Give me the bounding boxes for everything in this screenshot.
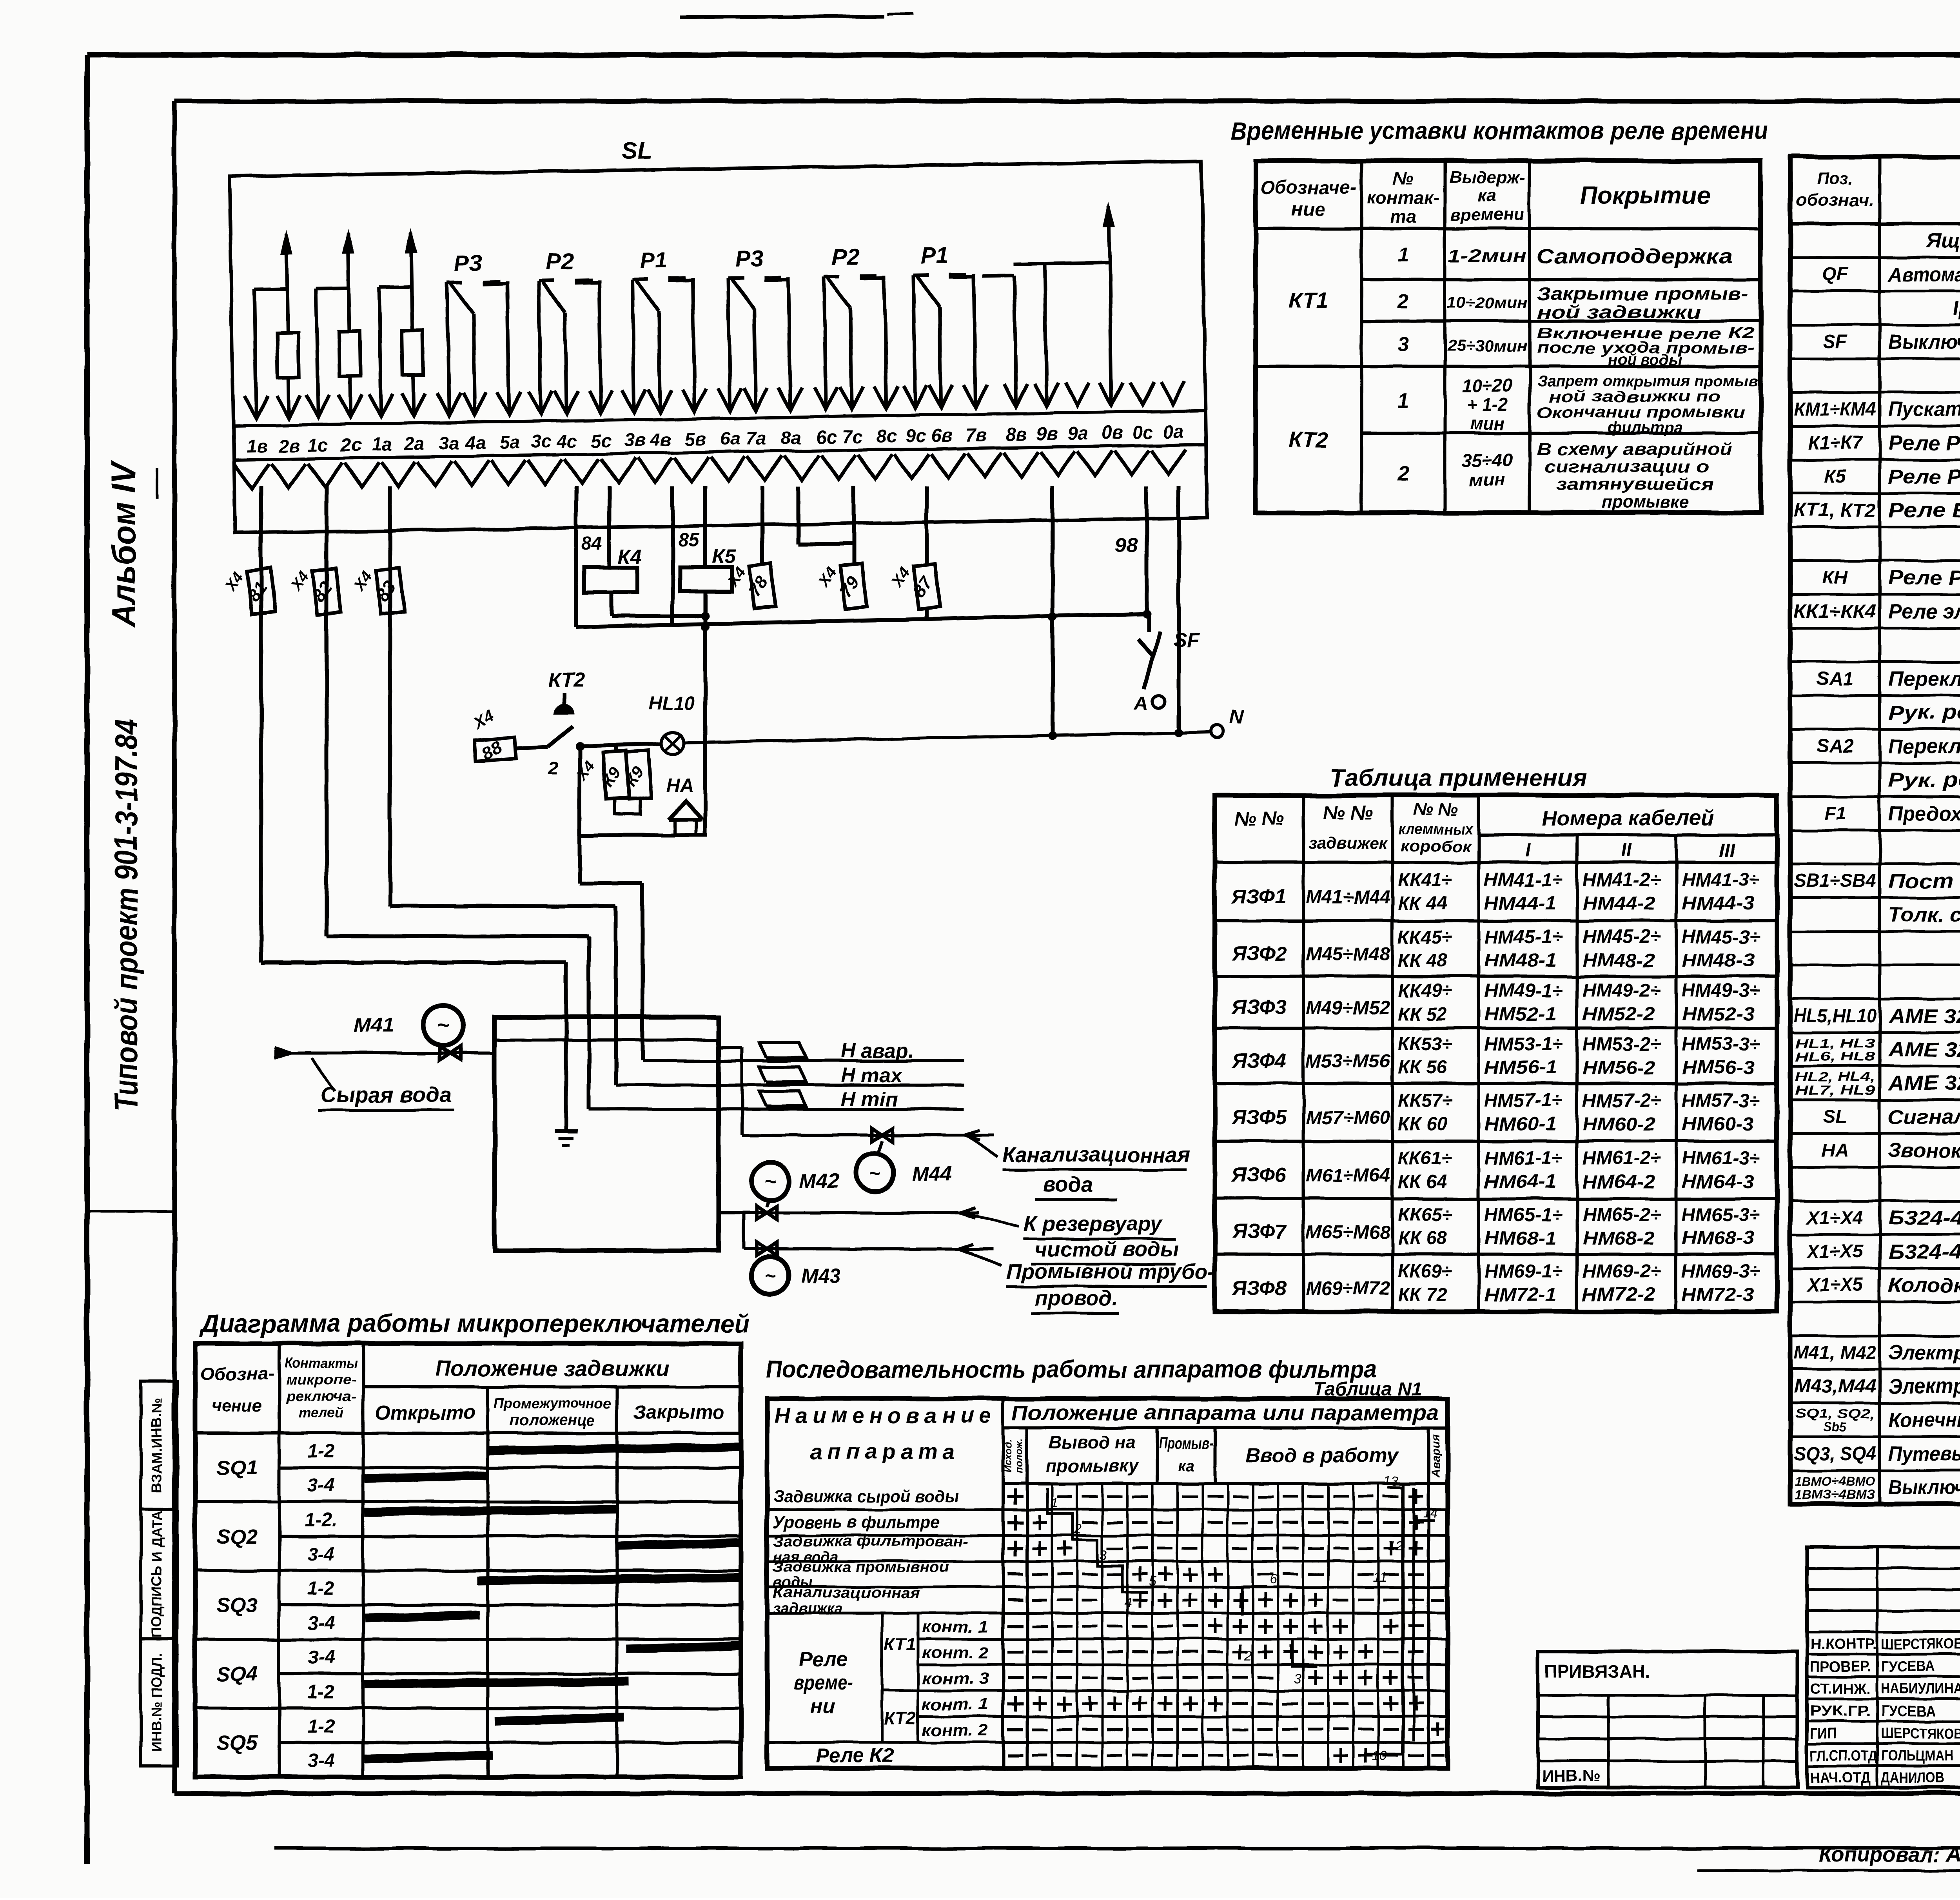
svg-text:ИНВ.№: ИНВ.№ [1542,1767,1600,1785]
svg-text:Р3: Р3 [454,250,482,276]
svg-text:КК 52: КК 52 [1398,1004,1447,1025]
svg-text:сигнализации о: сигнализации о [1544,457,1709,476]
svg-text:3в: 3в [624,430,646,451]
svg-text:КК53÷: КК53÷ [1398,1034,1452,1055]
svg-text:НМ49-2÷: НМ49-2÷ [1583,980,1661,1001]
svg-text:3а: 3а [439,432,460,454]
svg-text:Реле К2: Реле К2 [815,1744,894,1767]
svg-text:5с: 5с [591,430,612,451]
svg-text:КТ1: КТ1 [1289,288,1328,312]
svg-text:Автоматический выключатель АЕ.: Автоматический выключатель АЕ.2023-100УЗ [1887,263,1960,286]
svg-text:НМ45-2÷: НМ45-2÷ [1583,927,1661,947]
svg-text:~: ~ [869,1162,880,1184]
svg-text:1-2: 1-2 [307,1579,335,1599]
svg-text:2с: 2с [340,434,361,455]
svg-text:чистой воды: чистой воды [1035,1238,1179,1261]
svg-text:Р3: Р3 [735,246,763,272]
svg-text:0в: 0в [1102,422,1123,443]
svg-text:КК 48: КК 48 [1398,950,1447,971]
svg-text:Покрытие: Покрытие [1580,182,1710,209]
svg-text:3-4: 3-4 [307,1544,334,1565]
svg-text:Обозна-: Обозна- [200,1365,274,1384]
svg-text:НА: НА [1821,1140,1848,1161]
svg-text:8в: 8в [1006,423,1027,445]
svg-text:2: 2 [1074,1522,1082,1537]
svg-text:SQ4: SQ4 [217,1663,258,1686]
svg-text:6: 6 [1270,1572,1277,1587]
svg-text:Реле: Реле [799,1648,848,1671]
svg-text:микропе-: микропе- [286,1372,356,1388]
svg-text:+ 1-2: + 1-2 [1466,394,1508,415]
svg-text:7в: 7в [965,424,987,445]
svg-text:1ВМЗ÷4ВМЗ: 1ВМЗ÷4ВМЗ [1795,1487,1875,1502]
svg-text:НМ53-2÷: НМ53-2÷ [1583,1034,1661,1055]
svg-text:Электродвигатель ВАОА-071-4 0,: Электродвигатель ВАОА-071-4 0,4кВт,-380В [1888,1375,1960,1398]
svg-text:Уровень в фильтре: Уровень в фильтре [773,1513,940,1532]
svg-text:КТ1, КТ2: КТ1, КТ2 [1794,500,1876,521]
svg-text:I: I [1525,840,1531,861]
svg-text:чение: чение [212,1396,262,1415]
svg-text:SQ1: SQ1 [217,1457,258,1479]
svg-text:ПРОВЕР.: ПРОВЕР. [1810,1659,1871,1675]
svg-text:конт. 2: конт. 2 [922,1721,989,1739]
svg-text:НМ72-3: НМ72-3 [1682,1285,1754,1305]
svg-text:задвижек: задвижек [1309,834,1388,852]
svg-text:3с: 3с [531,431,552,452]
svg-text:ка: ка [1478,186,1496,205]
svg-text:М53÷М56: М53÷М56 [1306,1051,1390,1072]
svg-text:1-2.: 1-2. [305,1510,338,1530]
svg-text:ЯЗФ8: ЯЗФ8 [1231,1277,1287,1299]
svg-text:ной воды: ной воды [1608,351,1682,368]
svg-text:КТ2: КТ2 [1289,427,1328,452]
svg-text:X1÷X5: X1÷X5 [1806,1241,1864,1262]
svg-text:HL5,HL10: HL5,HL10 [1794,1005,1876,1026]
svg-text:та: та [1390,206,1416,227]
svg-text:1: 1 [1397,390,1409,412]
svg-text:Переключатель ПКУЗ-12U-УЗ Схем: Переключатель ПКУЗ-12U-УЗ Схема 0103 [1888,735,1960,758]
svg-text:Запрет открытия промыв: Запрет открытия промыв [1537,373,1758,390]
svg-text:9в: 9в [1036,423,1058,444]
svg-text:промывке: промывке [1601,493,1689,512]
svg-text:HL7, HL9: HL7, HL9 [1795,1083,1876,1098]
svg-text:ИНВ.№ ПОДЛ.: ИНВ.№ ПОДЛ. [149,1653,165,1751]
svg-text:Реле РПЛ 1400*4 U~220В, ТУ 16: Реле РПЛ 1400*4 U~220В, ТУ 16-523.554-78 [1888,432,1960,455]
svg-text:НМ56-3: НМ56-3 [1682,1058,1754,1078]
svg-text:мин: мин [1470,470,1505,490]
svg-text:СТ.ИНЖ.: СТ.ИНЖ. [1810,1681,1871,1697]
svg-text:ГОЛЬЦМАН: ГОЛЬЦМАН [1881,1748,1953,1764]
svg-text:ШЕРСТЯКОВА: ШЕРСТЯКОВА [1881,1726,1960,1742]
svg-text:К4: К4 [618,546,642,568]
svg-text:ШЕРСТЯКОВА: ШЕРСТЯКОВА [1881,1636,1960,1653]
svg-text:М69÷М72: М69÷М72 [1306,1278,1390,1299]
svg-text:НМ49-1÷: НМ49-1÷ [1484,980,1563,1001]
svg-text:3-4: 3-4 [307,1475,334,1496]
svg-text:№ №: № № [1413,800,1457,819]
svg-text:НМ45-3÷: НМ45-3÷ [1682,927,1760,947]
svg-text:АМЕ 325 22 12 У2 ~220В,ТУ16-53: АМЕ 325 22 12 У2 ~220В,ТУ16-535. 582-76 [1887,1072,1960,1095]
svg-text:НМ53-3÷: НМ53-3÷ [1682,1034,1760,1055]
svg-text:5в: 5в [684,428,706,450]
svg-text:Положение аппарата или парамет: Положение аппарата или параметра [1012,1401,1439,1425]
svg-text:НМ69-1÷: НМ69-1÷ [1484,1261,1563,1282]
svg-text:НМ64-3: НМ64-3 [1682,1172,1754,1192]
svg-text:3-4: 3-4 [307,1613,334,1633]
svg-text:НМ65-1÷: НМ65-1÷ [1484,1205,1563,1225]
svg-text:Выключатели муфты предельного: Выключатели муфты предельного момента [1888,1476,1960,1499]
svg-text:клеммных: клеммных [1398,821,1474,838]
svg-text:HL10: HL10 [649,693,695,714]
svg-text:НМ44-3: НМ44-3 [1682,893,1754,914]
svg-text:1а: 1а [371,434,392,455]
svg-text:ПОДПИСЬ И ДАТА: ПОДПИСЬ И ДАТА [149,1510,165,1637]
svg-text:Закрытие промыв-: Закрытие промыв- [1537,283,1748,304]
svg-text:ДАНИЛОВ: ДАНИЛОВ [1881,1770,1944,1786]
svg-text:НМ49-3÷: НМ49-3÷ [1682,980,1760,1001]
svg-text:10÷20мин: 10÷20мин [1447,294,1528,312]
svg-text:Канализационная: Канализационная [1002,1143,1190,1167]
svg-text:Авария: Авария [1429,1434,1442,1478]
svg-text:ГУСЕВА: ГУСЕВА [1881,1659,1935,1675]
svg-text:М65÷М68: М65÷М68 [1306,1222,1390,1243]
svg-text:1: 1 [1051,1495,1058,1510]
svg-text:НМ45-1÷: НМ45-1÷ [1484,927,1563,947]
svg-text:Сигнализатор ЭРСУ-3,ТУ 25.02-0: Сигнализатор ЭРСУ-3,ТУ 25.02-080678-79 [1888,1106,1960,1129]
svg-text:Реле ВЛ-34У4 U~220В, ВВ1- 1: Реле ВЛ-34У4 U~220В, ВВ1- 100 мин [1888,499,1960,522]
svg-text:НМ61-2÷: НМ61-2÷ [1583,1148,1661,1169]
svg-text:13: 13 [1383,1474,1398,1489]
svg-text:КК1÷КК4: КК1÷КК4 [1794,601,1876,622]
svg-text:НМ48-3: НМ48-3 [1682,950,1754,971]
svg-text:Задвижка сырой воды: Задвижка сырой воды [773,1487,959,1506]
svg-text:SQ5: SQ5 [217,1731,258,1754]
svg-text:SQ3: SQ3 [217,1594,258,1617]
svg-text:3-4: 3-4 [307,1750,334,1771]
svg-text:мин: мин [1470,413,1505,434]
svg-text:АМЕ 323 2212 У2~220В,ТУ 16-535: АМЕ 323 2212 У2~220В,ТУ 16-535. 582-76 [1887,1038,1960,1061]
svg-text:ной задвижки по: ной задвижки по [1548,388,1721,405]
svg-text:ЯЗФ7: ЯЗФ7 [1231,1220,1287,1243]
svg-text:М57÷М60: М57÷М60 [1306,1108,1390,1129]
svg-text:10: 10 [1372,1748,1387,1763]
svg-text:0с: 0с [1132,421,1153,443]
svg-text:НАЧ.ОТД: НАЧ.ОТД [1810,1770,1871,1786]
svg-text:К резервуару: К резервуару [1024,1212,1163,1236]
svg-text:1: 1 [1397,244,1409,267]
svg-text:НМ68-3: НМ68-3 [1682,1228,1754,1249]
svg-text:~: ~ [437,1014,450,1037]
svg-text:НМ48-2: НМ48-2 [1583,950,1655,971]
svg-text:ЯЗФ6: ЯЗФ6 [1231,1164,1287,1187]
svg-text:4: 4 [1125,1595,1132,1610]
svg-text:Электродвигатель АОПС-21-4 1,: Электродвигатель АОПС-21-4 1,3кВт,~380В [1888,1341,1960,1364]
svg-text:2: 2 [1397,290,1409,313]
svg-text:9а: 9а [1067,423,1088,444]
svg-text:SA2: SA2 [1817,736,1853,757]
svg-text:телей: телей [298,1405,344,1421]
svg-text:ЯЗФ1: ЯЗФ1 [1231,886,1287,908]
svg-text:КК45÷: КК45÷ [1398,927,1452,947]
svg-text:Путевые выключатели задвижек: Путевые выключатели задвижек [1888,1443,1960,1465]
svg-text:АМЕ 32 12 212 У2~220В,ТУ16-535: АМЕ 32 12 212 У2~220В,ТУ16-535.582-76 [1887,1005,1960,1027]
svg-text:Альбом IV: Альбом IV [105,460,143,628]
svg-text:положенце: положенце [509,1412,595,1429]
svg-text:НМ64-2: НМ64-2 [1583,1172,1655,1192]
svg-text:1в: 1в [246,436,268,457]
svg-text:1-2: 1-2 [307,1682,335,1702]
svg-text:Промыв-: Промыв- [1159,1435,1214,1452]
svg-text:5: 5 [1149,1574,1156,1589]
svg-text:промывку: промывку [1046,1455,1139,1476]
svg-text:КК 68: КК 68 [1398,1228,1447,1249]
svg-text:РУК.ГР.: РУК.ГР. [1810,1703,1871,1720]
svg-text:ной задвижки: ной задвижки [1537,302,1701,322]
svg-text:SQ1, SQ2,: SQ1, SQ2, [1795,1406,1875,1421]
svg-text:К5: К5 [712,545,736,568]
svg-text:НМ52-3: НМ52-3 [1682,1004,1754,1025]
svg-text:затянувшейся: затянувшейся [1556,475,1713,494]
svg-text:1с: 1с [308,434,328,455]
svg-text:НМ69-2÷: НМ69-2÷ [1583,1261,1661,1282]
svg-text:Копировал: Алешикова: Копировал: Алешикова [1819,1843,1960,1867]
svg-text:1ВМО÷4ВМО: 1ВМО÷4ВМО [1795,1474,1875,1488]
svg-text:3: 3 [1294,1672,1301,1687]
svg-text:Толк. средн. 1з.1р, Толк.нижн.: Толк. средн. 1з.1р, Толк.нижн.1з.1р, кра… [1888,904,1960,926]
svg-text:Р1: Р1 [920,243,949,269]
svg-text:НМ44-2: НМ44-2 [1583,893,1655,914]
svg-text:НМ68-2: НМ68-2 [1583,1228,1655,1249]
svg-text:Колодка торцевая КТ5У ТУ16-526: Колодка торцевая КТ5У ТУ16-526.462-79 [1888,1274,1960,1297]
svg-text:Пускатель ПМЛ 150104, 220В. ТУ: Пускатель ПМЛ 150104, 220В. ТУ16-526.437… [1888,398,1960,421]
svg-text:КК 44: КК 44 [1398,893,1447,914]
svg-text:3: 3 [1100,1548,1107,1562]
svg-text:SQ3, SQ4: SQ3, SQ4 [1794,1443,1876,1464]
svg-text:НМ60-3: НМ60-3 [1682,1114,1754,1135]
svg-text:НМ57-3÷: НМ57-3÷ [1682,1091,1760,1111]
svg-text:НМ69-3÷: НМ69-3÷ [1682,1261,1760,1282]
svg-text:НМ41-3÷: НМ41-3÷ [1682,870,1760,891]
svg-text:вода: вода [1043,1173,1093,1196]
svg-text:Рук. рев. ТУ16-526.047-74: Рук. рев. ТУ16-526.047-74 [1888,701,1960,724]
svg-text:НМ72-2: НМ72-2 [1583,1285,1655,1305]
svg-text:2: 2 [1397,462,1409,485]
svg-text:98: 98 [1115,534,1138,557]
svg-text:М49÷М52: М49÷М52 [1306,998,1390,1018]
svg-text:Вывод на: Вывод на [1049,1432,1136,1452]
svg-text:Б324-4.0п25-В/ВУЗ-5, ТУ16-526.: Б324-4.0п25-В/ВУЗ-5, ТУ16-526.462-79 [1888,1207,1960,1230]
svg-text:8с: 8с [877,425,897,446]
svg-text:Самоподдержка: Самоподдержка [1537,245,1733,268]
svg-text:Б324-4.0п25-В/ВУЗ-10,ТУ16-526.: Б324-4.0п25-В/ВУЗ-10,ТУ16-526.462-79 [1888,1240,1960,1263]
svg-text:№ №: № № [1323,802,1373,824]
svg-text:НМ64-1: НМ64-1 [1484,1172,1557,1192]
svg-text:1-2мин: 1-2мин [1448,245,1526,266]
svg-text:време-: време- [794,1671,853,1694]
svg-text:Н miп: Н miп [841,1088,897,1111]
svg-text:Открыто: Открыто [375,1401,475,1423]
svg-text:SL: SL [621,136,653,164]
svg-text:Sb5: Sb5 [1823,1420,1847,1434]
svg-text:ГИП: ГИП [1810,1726,1836,1742]
svg-text:5а: 5а [499,432,520,453]
svg-text:Канализационная: Канализационная [773,1585,920,1601]
svg-text:конт. 1: конт. 1 [922,1695,989,1713]
svg-text:М42: М42 [799,1170,839,1192]
svg-text:НМ48-1: НМ48-1 [1484,950,1557,971]
svg-text:НМ41-2÷: НМ41-2÷ [1583,870,1661,891]
svg-text:КК57÷: КК57÷ [1398,1091,1452,1111]
svg-text:КК 64: КК 64 [1398,1172,1447,1192]
svg-text:М44: М44 [912,1163,952,1185]
svg-text:ЯЗФ3: ЯЗФ3 [1231,996,1287,1019]
svg-text:F1: F1 [1824,803,1846,824]
svg-text:Iр 8А отс.12ПП ТУ 16-522.064: Iр 8А отс.12ПП ТУ 16-522.064-75 [1953,297,1960,320]
svg-text:SA1: SA1 [1817,668,1853,689]
svg-text:ГУСЕВА: ГУСЕВА [1881,1703,1935,1720]
svg-text:6с: 6с [816,426,837,448]
svg-text:реключа-: реключа- [285,1388,356,1404]
svg-text:КН: КН [1822,567,1848,588]
svg-text:М41, М42: М41, М42 [1794,1342,1876,1363]
svg-text:Н mах: Н mах [841,1064,903,1087]
svg-text:№ №: № № [1234,808,1285,829]
svg-text:2а: 2а [403,433,425,454]
svg-text:НМ53-1÷: НМ53-1÷ [1484,1034,1563,1055]
svg-text:1-2: 1-2 [307,1716,335,1737]
svg-text:SF: SF [1823,332,1847,352]
svg-text:НМ61-3÷: НМ61-3÷ [1682,1148,1760,1169]
svg-text:HL2, HL4,: HL2, HL4, [1795,1070,1875,1084]
svg-text:задвижка: задвижка [773,1601,843,1617]
svg-text:конт. 2: конт. 2 [922,1643,989,1662]
svg-text:КМ1÷КМ4: КМ1÷КМ4 [1794,399,1876,420]
svg-text:ВЗАМ.ИНВ.№: ВЗАМ.ИНВ.№ [149,1398,165,1493]
svg-text:6а: 6а [720,428,741,449]
svg-text:Реле РПЛ 1220*4 U~220В, ТУ16-5: Реле РПЛ 1220*4 U~220В, ТУ16-523.554-78 [1888,466,1960,488]
svg-text:№: № [1393,168,1414,188]
svg-text:Промежуточное: Промежуточное [494,1395,611,1411]
svg-text:2: 2 [1245,1648,1252,1663]
svg-text:Контакты: Контакты [285,1355,358,1371]
svg-text:КТ2: КТ2 [884,1708,916,1729]
svg-text:КК69÷: КК69÷ [1398,1261,1452,1282]
svg-text:НМ60-2: НМ60-2 [1583,1114,1655,1135]
svg-text:Р2: Р2 [546,249,574,274]
svg-text:ПРИВЯЗАН.: ПРИВЯЗАН. [1544,1661,1650,1682]
svg-text:КК 60: КК 60 [1398,1114,1447,1135]
svg-text:Р2: Р2 [831,244,859,270]
svg-text:Временные уставки контактов ре: Временные уставки контактов реле времени [1231,116,1768,145]
svg-text:~: ~ [764,1265,776,1287]
svg-text:Положение задвижки: Положение задвижки [435,1356,668,1381]
svg-text:Н авар.: Н авар. [841,1040,914,1062]
svg-text:КТ1: КТ1 [884,1634,916,1654]
svg-text:X1÷X4: X1÷X4 [1806,1208,1863,1229]
svg-text:ние: ние [1292,199,1325,220]
svg-text:Н.КОНТР.: Н.КОНТР. [1810,1636,1877,1653]
svg-text:Реле РУ1-11УЗ, U~220В, ТУ16-52: Реле РУ1-11УЗ, U~220В, ТУ16-523.538-78 [1888,566,1960,589]
svg-text:4с: 4с [556,430,577,452]
svg-text:SL: SL [1823,1107,1847,1127]
svg-text:М61÷М64: М61÷М64 [1306,1165,1390,1186]
svg-text:1-2: 1-2 [307,1441,335,1462]
svg-text:35÷40: 35÷40 [1462,450,1512,470]
svg-text:провод.: провод. [1035,1287,1118,1310]
svg-text:КК 56: КК 56 [1398,1058,1447,1078]
svg-text:конт. 3: конт. 3 [922,1669,989,1688]
svg-text:КК41÷: КК41÷ [1398,870,1452,891]
svg-text:QF: QF [1822,264,1849,285]
svg-text:НМ56-1: НМ56-1 [1484,1058,1557,1078]
svg-text:Последовательность работы аппа: Последовательность работы аппаратов филь… [766,1356,1377,1383]
svg-text:3-4: 3-4 [307,1647,334,1668]
svg-text:НМ68-1: НМ68-1 [1484,1228,1557,1249]
svg-text:SQ2: SQ2 [217,1525,258,1548]
svg-text:фильтра: фильтра [1608,419,1682,436]
svg-text:НМ52-2: НМ52-2 [1583,1004,1655,1025]
svg-text:~: ~ [764,1171,776,1193]
svg-text:Поз.: Поз. [1817,169,1853,188]
svg-text:Задвижка фильтрован-: Задвижка фильтрован- [773,1533,969,1550]
svg-text:НА: НА [666,775,693,796]
svg-text:Предохранитель ПРС-6УЗ-ПIпл.Вс: Предохранитель ПРС-6УЗ-ПIпл.Вст.1А [1888,802,1960,825]
svg-text:КК 72: КК 72 [1398,1285,1447,1305]
svg-text:контак-: контак- [1367,187,1439,208]
svg-text:25÷30мин: 25÷30мин [1446,338,1527,355]
svg-text:К1÷К7: К1÷К7 [1808,433,1863,454]
svg-text:аппарата: аппарата [811,1439,960,1464]
svg-text:HL1, HL3: HL1, HL3 [1795,1036,1875,1051]
svg-text:ни: ни [811,1695,835,1718]
svg-text:К5: К5 [1824,466,1847,487]
svg-text:11: 11 [1373,1570,1387,1585]
svg-text:В схему аварийной: В схему аварийной [1537,439,1733,459]
svg-text:времени: времени [1450,205,1524,224]
svg-text:Номера кабелей: Номера кабелей [1542,806,1713,830]
svg-text:Типовой проект 901-3-197.84: Типовой проект 901-3-197.84 [109,719,144,1111]
svg-text:85: 85 [678,529,700,550]
svg-text:НМ65-2÷: НМ65-2÷ [1583,1205,1661,1225]
svg-text:X1÷X5: X1÷X5 [1806,1275,1864,1296]
svg-text:Закрыто: Закрыто [633,1401,725,1423]
svg-text:Звонок 3 ВП 220: Звонок 3 ВП 220 [1888,1140,1960,1162]
svg-text:Промывной трубо-: Промывной трубо- [1006,1260,1215,1283]
svg-text:ГЛ.СП.ОТД: ГЛ.СП.ОТД [1810,1748,1877,1764]
svg-text:НМ56-2: НМ56-2 [1583,1058,1655,1078]
svg-text:8а: 8а [780,427,801,448]
svg-text:Переключатель ПКУЗ-120-УЗ схем: Переключатель ПКУЗ-120-УЗ схема 4020 [1888,668,1960,690]
svg-text:НАБИУЛИНА: НАБИУЛИНА [1881,1681,1960,1697]
svg-text:конт. 1: конт. 1 [922,1617,989,1636]
svg-text:Выдерж-: Выдерж- [1449,168,1525,187]
svg-text:2в: 2в [278,435,300,456]
svg-text:Исход.: Исход. [1002,1439,1014,1473]
svg-text:КК61÷: КК61÷ [1398,1148,1452,1169]
svg-text:НМ72-1: НМ72-1 [1484,1285,1557,1305]
svg-text:Реле электротепловое РТЛ 10080: Реле электротепловое РТЛ 100804 [1888,600,1960,623]
svg-text:НМ57-1÷: НМ57-1÷ [1484,1091,1563,1111]
svg-text:коробок: коробок [1400,838,1472,855]
svg-text:III: III [1719,840,1735,861]
svg-text:Сырая вода: Сырая вода [320,1082,452,1107]
svg-text:НМ44-1: НМ44-1 [1484,893,1557,914]
svg-text:ка: ка [1178,1457,1194,1474]
svg-text:3: 3 [1397,333,1409,356]
svg-text:ЯЗФ4: ЯЗФ4 [1231,1050,1287,1072]
svg-text:7а: 7а [746,428,767,449]
svg-text:Диаграмма работы микропереключ: Диаграмма работы микропереключателей [199,1309,750,1337]
